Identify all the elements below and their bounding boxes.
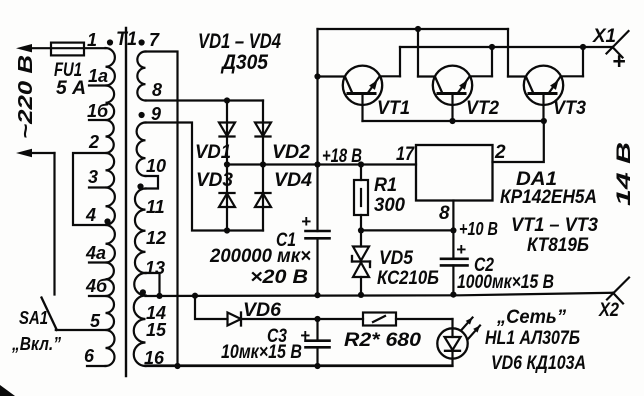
svg-text:2: 2	[88, 132, 99, 152]
svg-text:КТ819Б: КТ819Б	[527, 235, 589, 256]
svg-text:VT2: VT2	[466, 98, 499, 119]
svg-text:T1: T1	[116, 29, 137, 50]
svg-text:+18 В: +18 В	[322, 146, 362, 167]
svg-text:VT3: VT3	[553, 98, 586, 119]
svg-text:+: +	[301, 212, 311, 231]
svg-text:13: 13	[145, 258, 165, 278]
svg-text:R1: R1	[374, 175, 397, 196]
svg-text:2: 2	[494, 142, 506, 163]
svg-text:+: +	[456, 240, 466, 259]
svg-text:„Сеть”: „Сеть”	[496, 307, 566, 328]
svg-text:3: 3	[88, 167, 98, 187]
svg-text:~220 В: ~220 В	[15, 55, 37, 139]
svg-text:7: 7	[149, 30, 160, 50]
svg-text:X1: X1	[592, 26, 616, 47]
svg-text:4: 4	[85, 205, 96, 225]
svg-text:VD3: VD3	[196, 170, 233, 191]
svg-text:VD2: VD2	[272, 142, 310, 163]
svg-text:+10 В: +10 В	[459, 219, 498, 239]
svg-text:VD6 КД103А: VD6 КД103А	[491, 353, 586, 374]
svg-text:VD1 – VD4: VD1 – VD4	[198, 30, 281, 53]
svg-text:КР142ЕН5А: КР142ЕН5А	[500, 187, 597, 208]
svg-text:10: 10	[146, 156, 166, 176]
svg-text:VD5: VD5	[379, 248, 413, 269]
svg-text:8: 8	[152, 80, 162, 100]
svg-text:200000 мк×: 200000 мк×	[209, 246, 311, 267]
svg-text:14 В: 14 В	[614, 142, 635, 206]
svg-text:VD1: VD1	[195, 142, 231, 163]
svg-text:+: +	[612, 48, 625, 74]
svg-text:VT1 – VT3: VT1 – VT3	[511, 215, 598, 236]
svg-text:11: 11	[146, 197, 165, 217]
svg-text:1000мк×15 В: 1000мк×15 В	[457, 272, 554, 293]
svg-text:5: 5	[90, 311, 101, 331]
svg-text:15: 15	[146, 320, 167, 340]
svg-text:HL1 АЛ307Б: HL1 АЛ307Б	[485, 328, 580, 349]
svg-text:10мк×15 В: 10мк×15 В	[221, 342, 302, 363]
svg-text:300: 300	[374, 195, 405, 216]
svg-text:1а: 1а	[88, 66, 108, 86]
svg-text:Д305: Д305	[220, 51, 268, 74]
svg-text:КС210Б: КС210Б	[377, 268, 439, 289]
svg-text:VD4: VD4	[274, 170, 312, 191]
svg-text:SA1: SA1	[19, 308, 48, 328]
svg-text:VT1: VT1	[377, 98, 410, 119]
svg-text:VD6: VD6	[243, 300, 281, 321]
svg-text:17: 17	[396, 144, 415, 165]
svg-text:1: 1	[87, 30, 97, 50]
svg-text:4б: 4б	[85, 276, 108, 296]
svg-text:8: 8	[439, 203, 450, 224]
svg-text:R2* 680: R2* 680	[344, 330, 421, 351]
svg-text:5 А: 5 А	[56, 78, 86, 99]
svg-text:1б: 1б	[87, 101, 109, 121]
svg-text:9: 9	[151, 104, 161, 124]
svg-text:„Вкл.”: „Вкл.”	[11, 334, 61, 354]
svg-text:X2: X2	[598, 300, 619, 321]
svg-text:12: 12	[146, 228, 166, 248]
svg-text:4а: 4а	[85, 243, 106, 263]
svg-text:6: 6	[84, 346, 95, 366]
svg-text:×20 В: ×20 В	[250, 267, 308, 288]
